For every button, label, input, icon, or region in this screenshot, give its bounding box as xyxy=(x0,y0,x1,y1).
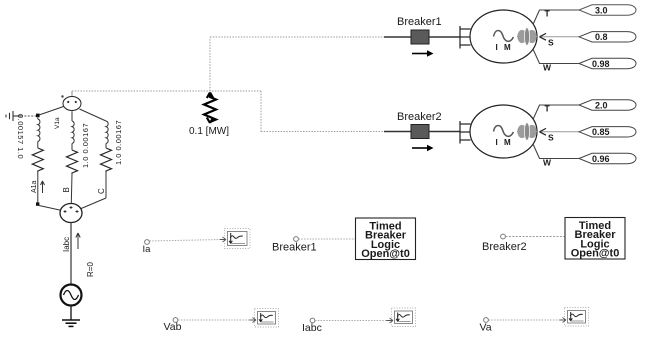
svg-text:1.0 0.00167: 1.0 0.00167 xyxy=(114,120,123,165)
svg-text:2.0: 2.0 xyxy=(595,101,608,111)
timed breaker logic TBL1 xyxy=(356,218,416,260)
ground GND2 (sideways, left of source network) xyxy=(6,111,21,121)
resistor R_C (phase C branch) xyxy=(101,148,112,172)
node Vab xyxy=(173,318,178,323)
svg-text:Open@t0: Open@t0 xyxy=(571,248,620,260)
svg-text:0.96: 0.96 xyxy=(592,154,610,164)
svg-text:Iabc: Iabc xyxy=(62,237,71,252)
terminal S wire (IM2) xyxy=(540,131,579,133)
svg-text:Ia: Ia xyxy=(143,244,152,255)
svg-text:I M: I M xyxy=(496,138,513,147)
IM1 rotor icon xyxy=(517,28,537,46)
node Iabc xyxy=(310,318,315,323)
arrow (flow direction under BRK2) xyxy=(412,145,434,151)
inductor L_A (phase A branch coil) xyxy=(38,118,40,149)
svg-text:A1a: A1a xyxy=(31,180,38,193)
meter PLOT3 (Iabc) xyxy=(387,308,416,327)
svg-text:0.8: 0.8 xyxy=(595,32,608,42)
inductor L_C (phase C branch coil) xyxy=(106,121,108,148)
svg-text:0.1 [MW]: 0.1 [MW] xyxy=(189,126,229,137)
wire phase A lower xyxy=(37,172,39,204)
wire bus horizontal y=91 xyxy=(72,90,261,92)
svg-text:1.0 0.00167: 1.0 0.00167 xyxy=(81,123,90,168)
terminal W wire (IM1) xyxy=(533,49,579,64)
wire drop x=261 down xyxy=(260,91,262,132)
svg-text:S: S xyxy=(548,38,554,48)
capsule 0.8 (speed input IM1) xyxy=(579,32,636,42)
wire diagonal N1 to phase C xyxy=(80,109,107,121)
wire diagonal A2 to N2 xyxy=(39,206,62,211)
node N2 (lower junction circle) xyxy=(60,204,82,223)
svg-text:0.00157 1.0: 0.00157 1.0 xyxy=(16,114,25,159)
wire Va to meter xyxy=(489,319,562,321)
terminal T wire (IM1) xyxy=(533,10,579,25)
ground GND1 (below source) xyxy=(62,320,80,326)
capsule 0.98 (IM1) xyxy=(579,58,636,68)
tick mark at N1 upper-left xyxy=(61,95,63,97)
svg-text:R=0: R=0 xyxy=(86,262,95,277)
capsule 0.96 (IM2) xyxy=(579,153,636,163)
wire Iabc to meter xyxy=(315,320,388,322)
wire phase B lower xyxy=(70,174,73,203)
capsule 2.0 (torque input IM2) xyxy=(579,100,636,110)
svg-text:Va: Va xyxy=(480,322,492,334)
svg-text:Breaker2: Breaker2 xyxy=(482,241,527,253)
svg-text:0.98: 0.98 xyxy=(592,59,610,69)
wire riser x=210 up to breaker1 feed xyxy=(209,37,211,91)
svg-text:Breaker1: Breaker1 xyxy=(397,16,442,28)
node Va xyxy=(484,318,489,323)
resistor R_A (phase A branch) xyxy=(32,148,43,172)
IM2 sine symbol xyxy=(494,126,514,137)
wire feed to breaker1 y=37 xyxy=(210,36,384,38)
svg-text:C: C xyxy=(97,188,106,194)
inductor L_B (phase B branch coil) xyxy=(72,111,74,150)
breaker BRK2 xyxy=(384,131,411,133)
node A2 (junction dot lower) xyxy=(36,202,39,205)
wire phase C lower xyxy=(105,172,107,198)
induction machine IM1 body xyxy=(470,10,537,63)
svg-text:Vab: Vab xyxy=(164,321,182,333)
node N1 (top star-point circle) xyxy=(63,97,81,111)
meter PLOT2 (Vab) xyxy=(250,309,279,328)
wire feed to breaker2 y=131.5 xyxy=(261,131,384,133)
stator terminal comb IM1 xyxy=(460,26,471,49)
svg-text:Breaker1: Breaker1 xyxy=(272,242,317,254)
capsule 0.85 (speed input IM2) xyxy=(579,127,636,137)
wire N2 to source xyxy=(70,223,72,285)
svg-text:V1a: V1a xyxy=(54,117,61,129)
svg-text:0.85: 0.85 xyxy=(592,127,610,137)
svg-text:3.0: 3.0 xyxy=(595,6,608,16)
svg-text:Iabc: Iabc xyxy=(302,322,322,334)
resistor R_B (phase B branch) xyxy=(67,150,78,174)
capsule 3.0 (torque input IM1) xyxy=(579,5,636,15)
wire diagonal C to N2 xyxy=(80,198,106,209)
arrow (flow direction under BRK1) xyxy=(412,50,434,56)
AC source SRC1 xyxy=(61,285,82,306)
IM2 rotor icon xyxy=(517,123,537,141)
svg-text:S: S xyxy=(548,133,554,143)
wire source to ground xyxy=(70,306,72,320)
meter PLOT4 (Va) xyxy=(560,308,589,327)
svg-text:Breaker2: Breaker2 xyxy=(397,111,442,123)
IM1 sine symbol xyxy=(494,31,514,42)
svg-text:W: W xyxy=(543,158,552,168)
stator terminal comb IM2 xyxy=(460,121,471,144)
load resistor RL 0.1 [MW] (vertical bold with arrows) xyxy=(204,93,216,124)
node Ia xyxy=(145,240,150,245)
terminal W wire (IM2) xyxy=(533,144,579,159)
wire Breaker1 to TBL1 xyxy=(299,238,356,240)
wire ground to node A1 xyxy=(21,115,37,117)
node Breaker1 signal xyxy=(294,237,299,242)
svg-text:I M: I M xyxy=(496,43,513,52)
meter PLOT1 (Ia) xyxy=(220,229,251,249)
timed breaker logic TBL2 xyxy=(565,218,625,260)
svg-text:T: T xyxy=(545,104,551,114)
svg-text:Open@t0: Open@t0 xyxy=(361,248,410,260)
wire Ia to meter xyxy=(150,240,223,242)
breaker BRK1 xyxy=(384,36,411,38)
wire diagonal node A1 to star node N1 xyxy=(39,106,65,115)
wire stub N1 to bus xyxy=(71,91,73,96)
wire Vab to meter xyxy=(178,319,251,321)
svg-text:B: B xyxy=(62,187,71,192)
terminal S wire (IM1) xyxy=(540,36,579,38)
svg-text:T: T xyxy=(545,9,551,19)
svg-text:W: W xyxy=(543,63,552,73)
wire Breaker2 to TBL2 xyxy=(506,236,566,238)
node A1 (junction dot) xyxy=(36,114,40,118)
terminal T wire (IM2) xyxy=(533,105,579,120)
induction machine IM2 body xyxy=(470,105,537,158)
node Breaker2 signal xyxy=(501,234,506,239)
